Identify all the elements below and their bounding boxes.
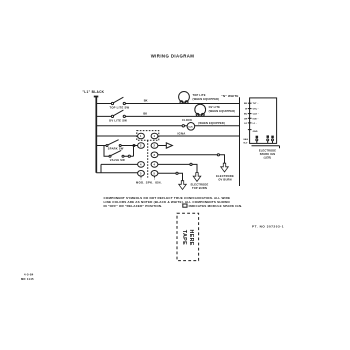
ground arrow	[179, 181, 187, 190]
wire spark switch branch	[96, 145, 137, 147]
tape here dashed box	[177, 213, 199, 260]
node clock terminal	[182, 125, 184, 127]
pin row 3	[248, 113, 252, 115]
svg-text:MD 1145: MD 1145	[21, 277, 34, 281]
svg-text:"N" WHITE: "N" WHITE	[221, 94, 238, 98]
connector pin pair row1	[138, 133, 145, 139]
svg-text:GAS: GAS	[243, 138, 248, 141]
svg-text:TOP LITE: TOP LITE	[193, 93, 206, 97]
svg-text:(WHEN EQUIPPED): (WHEN EQUIPPED)	[198, 121, 225, 125]
wire row to connector 4	[101, 164, 138, 172]
svg-text:OVL ··: OVL ··	[253, 109, 260, 111]
wire row1 top-lite circuit	[96, 103, 239, 105]
wire valve switch branch	[104, 146, 134, 157]
wire row4 to top electrode	[158, 163, 190, 165]
svg-text:(WHEN EQUIPPED): (WHEN EQUIPPED)	[193, 97, 220, 101]
svg-text:WIRING DIAGRAM: WIRING DIAGRAM	[151, 54, 195, 59]
svg-text:OR: OR	[244, 118, 248, 120]
svg-text:BK: BK	[143, 111, 147, 115]
svg-text:VALVE SW: VALVE SW	[110, 158, 125, 162]
svg-text:MOD. SPK. IGN.: MOD. SPK. IGN.	[136, 181, 162, 185]
svg-text:TLT ··: TLT ··	[253, 103, 259, 105]
pin row 4	[248, 117, 252, 119]
svg-text:W: W	[245, 109, 248, 111]
wire L1 bus vertical	[94, 97, 99, 173]
svg-text:HERE: HERE	[188, 230, 194, 246]
svg-text:CLK: CLK	[188, 127, 193, 129]
svg-text:INDICATES MODULE SPARK IGN.: INDICATES MODULE SPARK IGN.	[189, 204, 243, 208]
svg-text:IN "OFF" OR "RELAXED" POSITION: IN "OFF" OR "RELAXED" POSITION.	[104, 204, 163, 208]
svg-text:BK: BK	[244, 103, 248, 105]
connector pin pair row4	[138, 162, 145, 168]
electrode OV BURN arrow	[221, 163, 229, 172]
wire row2 ov-lite circuit	[96, 115, 239, 117]
connector pin row3	[151, 152, 158, 158]
svg-text:(WHEN EQUIPPED): (WHEN EQUIPPED)	[209, 109, 236, 113]
svg-text:TOP LITE SW: TOP LITE SW	[110, 106, 130, 110]
svg-text:BK: BK	[144, 98, 148, 102]
svg-text:(LER): (LER)	[264, 156, 272, 159]
svg-text:TOP BURN: TOP BURN	[192, 186, 207, 190]
clock CLOCK	[187, 123, 195, 131]
svg-text:GY: GY	[244, 123, 248, 125]
svg-text:CLK ··: CLK ··	[253, 114, 260, 116]
svg-text:OV BURN: OV BURN	[218, 177, 231, 181]
note module symbol	[183, 204, 187, 207]
svg-text:IGN ··: IGN ··	[253, 118, 259, 120]
connector module dashed outline	[137, 131, 159, 141]
wire row5 to ground arrow	[158, 172, 176, 174]
lamp OV LITE	[195, 104, 206, 115]
junction dot	[133, 145, 135, 147]
pin row 2	[248, 108, 252, 110]
wire arrow output row2	[158, 145, 166, 147]
svg-text:OV LITE: OV LITE	[209, 105, 221, 109]
svg-text:PT. NO 307203-1: PT. NO 307203-1	[252, 225, 284, 229]
wire row3 to ov electrode	[158, 154, 217, 156]
svg-text:CLOCK: CLOCK	[182, 118, 192, 122]
connector pin pair row2	[138, 143, 145, 149]
svg-text:OV LITE SW: OV LITE SW	[109, 118, 127, 122]
switch OV LITE SW	[111, 115, 113, 117]
connector pin pair row5	[138, 171, 145, 177]
svg-text:L1 ··: L1 ··	[253, 123, 258, 125]
svg-text:ELECTRODE: ELECTRODE	[216, 174, 234, 178]
wire row IGNA	[96, 135, 239, 137]
pin row 1	[248, 102, 252, 104]
pin row 5	[248, 122, 252, 124]
svg-text:ELECTRODE: ELECTRODE	[191, 183, 209, 187]
lamp TOP LITE	[179, 92, 190, 103]
wire N bus vertical	[239, 97, 241, 186]
svg-text:4-5-84: 4-5-84	[24, 272, 34, 276]
svg-text:BU: BU	[244, 114, 248, 116]
wire bus bottom to connector 5	[96, 172, 137, 175]
switch SPARK SW	[106, 145, 108, 147]
svg-text:SPARK SW: SPARK SW	[108, 147, 124, 151]
svg-text:GND: GND	[253, 131, 258, 133]
ignition module box	[250, 98, 277, 143]
switch TOP LITE SW	[111, 102, 113, 104]
svg-text:VLV: VLV	[243, 142, 248, 144]
switch VALVE SW	[109, 155, 111, 157]
spark gap pins	[256, 139, 258, 141]
wire row3 clock circuit	[96, 125, 239, 127]
pin row GND	[248, 129, 252, 131]
svg-text:IGNA: IGNA	[178, 131, 186, 135]
svg-text:TAPE: TAPE	[181, 230, 187, 245]
electrode TOP BURN arrow	[193, 173, 201, 182]
svg-text:"L1" BLACK: "L1" BLACK	[83, 90, 105, 94]
